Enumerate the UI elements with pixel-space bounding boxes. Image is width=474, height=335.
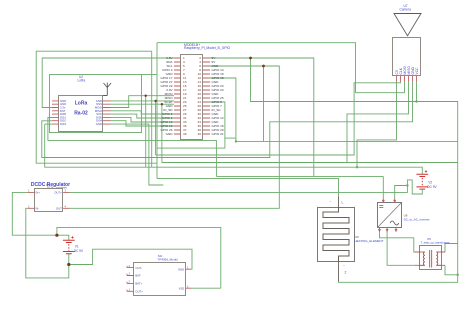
svg-text:~: ~ bbox=[343, 264, 345, 268]
svg-text:GPIO 21: GPIO 21 bbox=[212, 132, 224, 136]
wire LoRa SCK bbox=[111, 114, 175, 118]
wire LoRa DI04 bbox=[111, 121, 175, 126]
TP4056 module body bbox=[134, 263, 186, 296]
wire GND net from Pi pin6 bbox=[70, 66, 279, 208]
wire DCDC IN+ to battery plus bbox=[12, 192, 69, 240]
wire LoRa MISO bbox=[111, 111, 175, 114]
wire 3.3V Pi pin1 to LoRa bbox=[42, 58, 174, 108]
transformer pin stubs bbox=[415, 252, 445, 265]
junction 5V bbox=[249, 57, 252, 60]
svg-text:TP4056_Modul: TP4056_Modul bbox=[158, 258, 179, 262]
Pi pin numbers and labels bbox=[160, 56, 223, 136]
wire DCDC OUT+ to inverter bbox=[70, 186, 407, 199]
junction battery minus bbox=[67, 263, 70, 266]
junction NSS row bbox=[161, 103, 163, 105]
camera pin names bbox=[395, 66, 419, 75]
svg-text:IN-: IN- bbox=[36, 207, 40, 211]
wire LoRa GND top row bbox=[111, 100, 175, 102]
wire camera pin1 branch bbox=[357, 81, 397, 167]
svg-text:~: ~ bbox=[330, 199, 332, 203]
svg-text:Camera: Camera bbox=[400, 8, 412, 12]
inverter U8 body bbox=[378, 203, 402, 228]
transformer coils bbox=[420, 250, 442, 268]
junction battery plus bbox=[55, 234, 58, 237]
wire V2+ long net bbox=[45, 124, 423, 174]
wire 5V mid run bbox=[216, 175, 383, 177]
svg-text:DC 9V: DC 9V bbox=[74, 249, 84, 253]
wire mid long run bbox=[162, 162, 458, 164]
svg-text:GND: GND bbox=[178, 267, 184, 271]
svg-text:GND: GND bbox=[96, 122, 102, 126]
svg-text:VCC: VCC bbox=[415, 67, 419, 75]
svg-text:OUT+: OUT+ bbox=[135, 290, 143, 294]
heating element serpentine bbox=[323, 208, 349, 263]
wire LoRa NSS row bbox=[111, 103, 175, 105]
wire GND branch down bbox=[263, 66, 265, 141]
antenna bbox=[103, 83, 111, 96]
junction V2 net bbox=[356, 166, 358, 168]
wire transformer primary-top link bbox=[445, 244, 458, 253]
wire MOSI branch down bbox=[145, 96, 147, 168]
svg-text:2: 2 bbox=[345, 271, 347, 275]
wire 5V net from Pi pin2 bbox=[210, 58, 314, 176]
svg-text:Raspberry_Pi_Model_B_GPIO: Raspberry_Pi_Model_B_GPIO bbox=[184, 46, 231, 50]
wire DI02 to camera pin5 bbox=[42, 81, 413, 158]
inverter top pins bbox=[383, 199, 396, 203]
wire net camera-CS staircase to top bus bbox=[157, 43, 405, 93]
wire camera pin2 staircase bbox=[156, 81, 401, 155]
svg-text:BAT+: BAT+ bbox=[135, 282, 142, 286]
svg-text:HEATING_ELEMENT: HEATING_ELEMENT bbox=[355, 239, 384, 243]
svg-text:40: 40 bbox=[198, 132, 202, 136]
wire 5V branch to camera VCC and heater bbox=[251, 58, 458, 282]
wire GND long run bbox=[236, 140, 458, 142]
svg-text:VSS: VSS bbox=[179, 286, 185, 290]
wire LoRa GND bottom row bbox=[111, 124, 164, 185]
camera body bbox=[393, 38, 421, 76]
heating element labels bbox=[338, 197, 340, 282]
wire LoRa MOSI to Pi bbox=[111, 96, 175, 108]
svg-text:U4: U4 bbox=[46, 183, 50, 187]
wire jog link bbox=[225, 137, 236, 139]
wire link to LoRa block corner bbox=[142, 74, 157, 76]
wire GPIO18 drop bbox=[210, 78, 236, 141]
svg-text:V2: V2 bbox=[428, 181, 432, 185]
wire VSS run bbox=[191, 287, 221, 289]
LoRa left pins bbox=[52, 101, 59, 124]
wire battery minus to TP4056 GND bbox=[69, 249, 192, 269]
svg-text:OUT+: OUT+ bbox=[54, 191, 62, 195]
wire inverter AC2 to transformer bbox=[387, 231, 415, 265]
junction inverter minus bbox=[406, 184, 408, 186]
svg-text:T_step_up_transformer: T_step_up_transformer bbox=[421, 241, 450, 245]
camera lens triangle bbox=[394, 14, 421, 36]
wire NSS branch down bbox=[161, 104, 163, 162]
junction GND riser bbox=[235, 140, 237, 142]
wire V2 minus to inverter node bbox=[407, 180, 422, 194]
wire LoRa DI05 bbox=[111, 117, 175, 122]
wire GND row branch bbox=[155, 101, 157, 155]
svg-text:OUT-: OUT- bbox=[135, 266, 142, 270]
LoRa module U2 body bbox=[59, 96, 103, 132]
wire battery plus branch to TP4056 VSS bbox=[57, 227, 221, 288]
Raspberry Pi GPIO header body bbox=[181, 55, 203, 140]
inverter bottom pins bbox=[379, 228, 397, 232]
Pi right pin stubs bbox=[203, 58, 210, 134]
wire camera VCC drop bbox=[416, 81, 418, 102]
wire drop from outer loop bbox=[151, 51, 153, 167]
junction camera VCC bbox=[415, 100, 417, 102]
wire heater top run bbox=[157, 179, 339, 197]
junction GND bbox=[262, 65, 265, 68]
wire inverter AC1 to transformer bbox=[380, 231, 415, 252]
LoRa right pins bbox=[103, 101, 111, 124]
wire DI01 run bbox=[48, 118, 217, 177]
svg-text:OUT: OUT bbox=[56, 207, 62, 211]
svg-text:GND: GND bbox=[166, 132, 174, 136]
wire DI03 pigtail bbox=[45, 123, 52, 125]
svg-text:LoRa: LoRa bbox=[78, 79, 86, 83]
transformer body bbox=[420, 246, 442, 270]
svg-text:DC_to_AC_inverter: DC_to_AC_inverter bbox=[404, 218, 430, 222]
battery V1 bbox=[63, 236, 75, 254]
svg-text:DC 9V: DC 9V bbox=[427, 185, 437, 189]
svg-text:L: L bbox=[342, 201, 344, 205]
wire inverter DC+ drop bbox=[382, 176, 384, 198]
wire camera pin4 staircase bbox=[347, 81, 409, 163]
Pi left pin stubs bbox=[174, 58, 181, 134]
wire GPIO8 loop bbox=[157, 102, 225, 148]
camera pin stubs bbox=[397, 76, 417, 81]
svg-text:IN+: IN+ bbox=[36, 191, 41, 195]
junction GND row bbox=[154, 100, 156, 102]
battery V2 bbox=[416, 170, 428, 189]
svg-text:Ra-02: Ra-02 bbox=[74, 111, 88, 117]
DCDC regulator body U4 bbox=[35, 189, 63, 212]
svg-text:39: 39 bbox=[183, 132, 187, 136]
wire DCDC IN- to battery minus bbox=[26, 208, 69, 278]
wire net left outer loop bbox=[36, 51, 157, 163]
heating element U6 body bbox=[318, 208, 355, 262]
wire left long drop to heater line bbox=[156, 43, 158, 179]
wire transformer secondary low bbox=[445, 265, 458, 275]
junction MOSI row bbox=[145, 95, 147, 97]
junction secondary tap bbox=[457, 274, 459, 276]
svg-text:BAT-: BAT- bbox=[135, 274, 141, 278]
svg-text:DI03: DI03 bbox=[60, 122, 66, 126]
LoRa sub-block outline bbox=[50, 75, 142, 133]
svg-text:LoRa: LoRa bbox=[75, 101, 88, 107]
